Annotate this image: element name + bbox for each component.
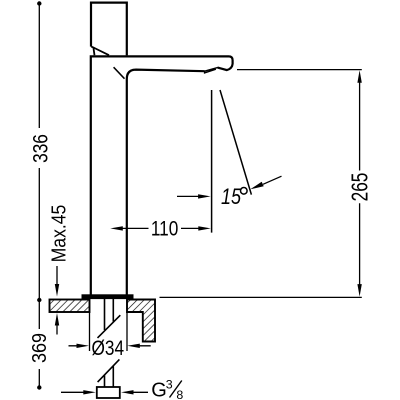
svg-text:15: 15: [221, 185, 242, 209]
svg-text:110: 110: [151, 218, 178, 241]
svg-text:265: 265: [348, 173, 373, 202]
svg-text:G: G: [151, 380, 167, 400]
svg-text:369: 369: [29, 333, 51, 363]
svg-text:Max.45: Max.45: [47, 205, 69, 263]
svg-text:Ø34: Ø34: [92, 337, 125, 360]
svg-text:336: 336: [30, 134, 53, 163]
svg-text:8: 8: [176, 388, 183, 400]
svg-text:3: 3: [166, 377, 173, 391]
